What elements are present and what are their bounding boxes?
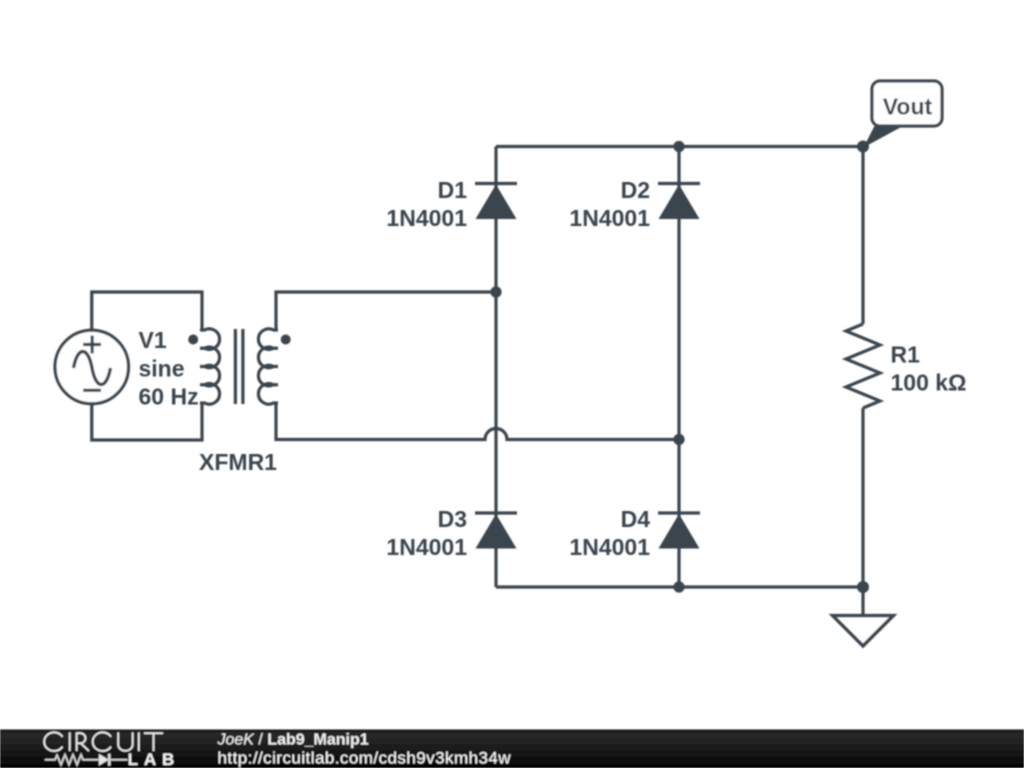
diode D3 [475, 513, 517, 549]
svg-text:1N4001: 1N4001 [386, 205, 467, 231]
resistor R1 [846, 324, 880, 408]
svg-text:LAB: LAB [128, 750, 181, 768]
flag Vout [864, 81, 943, 148]
node secondary bottom junction [673, 434, 684, 445]
core lines [235, 329, 243, 404]
primary coil [200, 329, 220, 404]
diode D2 [658, 184, 700, 220]
logo resistor-diode line [45, 754, 128, 766]
wire Vout to R1 [861, 147, 864, 325]
svg-text:60 Hz: 60 Hz [139, 384, 199, 410]
svg-text:1N4001: 1N4001 [569, 205, 650, 231]
wire bridge right vertical [677, 147, 680, 588]
diode D1 [475, 184, 517, 220]
svg-text:D2: D2 [621, 177, 650, 203]
wire bridge left vertical [494, 147, 497, 588]
diode D4 [658, 513, 700, 549]
node junction D2 top [673, 141, 684, 152]
wire primary loop bottom [92, 403, 202, 440]
svg-text:D1: D1 [438, 177, 468, 203]
node Vout junction [857, 141, 869, 153]
secondary coil [258, 329, 278, 404]
svg-text:V1: V1 [139, 327, 167, 353]
svg-text:Vout: Vout [883, 94, 933, 120]
svg-text:D3: D3 [438, 506, 467, 532]
voltage source V1 [55, 330, 129, 404]
secondary dot [281, 335, 291, 345]
primary dot [188, 335, 198, 345]
svg-text:sine: sine [139, 356, 185, 382]
node secondary top junction [490, 286, 501, 297]
wire R1 to ground [861, 408, 864, 615]
wire secondary top [276, 292, 496, 330]
svg-text:http://circuitlab.com/cdsh9v3k: http://circuitlab.com/cdsh9v3kmh34w [218, 749, 512, 768]
wire bridge bottom [496, 585, 863, 588]
wire bridge top [496, 145, 863, 148]
svg-text:R1: R1 [891, 342, 921, 368]
wire secondary bottom with hop [276, 403, 679, 440]
svg-text:1N4001: 1N4001 [569, 534, 650, 560]
svg-text:D4: D4 [621, 506, 651, 532]
svg-text:XFMR1: XFMR1 [199, 449, 277, 475]
svg-text:100 kΩ: 100 kΩ [891, 370, 967, 396]
footer bar [0, 730, 1024, 769]
wire primary loop top [92, 292, 202, 331]
logo CIRCUIT [44, 732, 163, 751]
svg-text:JoeK / Lab9_Manip1: JoeK / Lab9_Manip1 [217, 732, 369, 749]
node D4 bottom junction [673, 581, 684, 592]
ground [833, 616, 894, 647]
node ground junction [857, 581, 869, 593]
svg-text:1N4001: 1N4001 [386, 534, 467, 560]
transformer XFMR1 [188, 329, 291, 404]
